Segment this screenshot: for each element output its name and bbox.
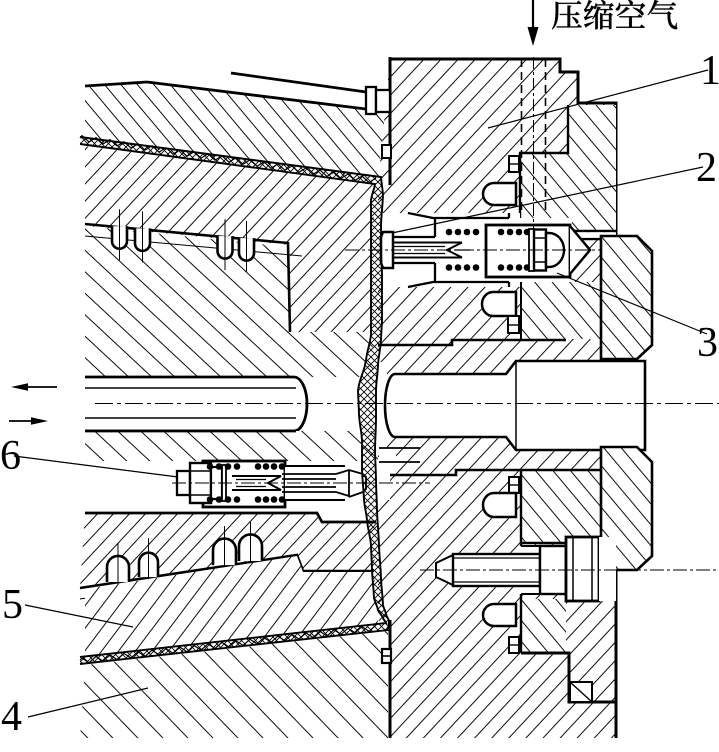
parison borders	[80, 137, 389, 664]
insert strip mid b	[521, 282, 601, 339]
vent slots upper row	[112, 226, 127, 249]
lower thin line	[80, 565, 300, 599]
left upper wedge (die lip)	[85, 146, 379, 332]
insert strip lower a	[521, 470, 601, 543]
valve 6 needle shaft	[282, 470, 366, 497]
clamp block lower	[601, 447, 652, 570]
key tab 3	[509, 477, 519, 493]
vent slot shelf line	[85, 224, 290, 332]
valve 6 stem	[232, 476, 281, 490]
central guide boss	[385, 361, 645, 450]
insert strip lower b	[521, 599, 566, 653]
svg-text:1: 1	[700, 48, 719, 94]
parting key bottom	[382, 649, 391, 663]
valve 6 housing	[203, 461, 285, 507]
right body outline	[390, 57, 616, 738]
valve 6 retainer	[222, 465, 226, 501]
valve 2 axis	[345, 249, 630, 251]
step lines lower	[378, 470, 601, 475]
leader 3	[557, 273, 707, 334]
valve 2 housing lines	[381, 213, 509, 287]
leader 4	[28, 688, 148, 717]
boss 2	[482, 292, 516, 316]
long screw head	[366, 87, 376, 114]
region 5 block	[85, 556, 378, 658]
boss 1	[483, 183, 516, 205]
svg-text:5: 5	[2, 582, 23, 628]
svg-text:2: 2	[696, 145, 717, 191]
valve 2 poppet head	[381, 232, 393, 268]
tube lower edge	[85, 430, 296, 433]
valve 2 nose cone	[570, 226, 590, 274]
leader 6	[14, 456, 178, 477]
boss cap clearance	[376, 362, 387, 449]
svg-text:3: 3	[697, 320, 718, 366]
lower steps	[521, 653, 616, 702]
flow arrow left-out	[18, 386, 57, 388]
clamp bolt tip	[436, 555, 453, 585]
valve 6 bore	[85, 461, 374, 508]
parison braid top run	[80, 136, 376, 183]
valve 6 end cap	[177, 471, 190, 495]
valve 2 pocket	[376, 213, 520, 287]
clamp bolt shaft	[453, 554, 540, 586]
band below tube	[85, 431, 378, 461]
bolt head pocket	[599, 537, 616, 601]
leader 1	[488, 70, 708, 128]
clamp block upper	[601, 236, 652, 359]
lower wedge top edge	[85, 513, 376, 522]
region 4 base block	[80, 631, 388, 738]
valve 6 channel lines	[285, 466, 345, 500]
key tab 1	[509, 156, 519, 172]
mold top plate left half	[85, 82, 390, 183]
strip mid b edge	[520, 282, 522, 339]
leader 5	[25, 605, 133, 627]
air passage dashed bores	[521, 59, 523, 213]
clamp bolt head	[566, 537, 599, 601]
valve 2 retainer	[529, 229, 534, 271]
boss 4	[483, 604, 516, 626]
clamp bolt bore	[521, 546, 540, 594]
left middle block	[85, 226, 374, 377]
key tab 2	[508, 316, 519, 333]
valve 6 axis	[172, 482, 430, 484]
compressed air arrow	[532, 0, 534, 30]
needle seat notch	[379, 448, 396, 462]
valve 6 spring coils	[207, 463, 214, 470]
key tab 4	[509, 637, 519, 653]
right body lower left edge	[389, 620, 392, 738]
base notch	[570, 682, 592, 702]
strip gap	[520, 232, 616, 238]
valve 2 washer cup	[546, 233, 564, 267]
valve 2 stem	[393, 243, 462, 258]
air axis centerline	[533, 57, 535, 230]
insert strip upper edges	[520, 105, 616, 239]
bolt axis	[420, 569, 719, 571]
clamp bolt washer	[540, 546, 566, 594]
insert strip upper	[520, 105, 616, 231]
parison sheet band	[80, 137, 389, 664]
parting key top	[382, 145, 391, 158]
svg-text:4: 4	[1, 694, 22, 740]
main axis centerline	[95, 403, 719, 405]
lower wedge bottom edge	[80, 555, 374, 588]
valve 2 spring coils	[446, 229, 453, 236]
valve 2 nut	[534, 230, 546, 271]
parison braid bottom run	[80, 625, 376, 663]
valve 6 hex nut	[190, 463, 211, 503]
long screw shaft	[147, 73, 366, 109]
mold body right half	[378, 59, 616, 738]
top plate outline	[85, 82, 147, 86]
valve 2 cartridge body	[486, 225, 570, 277]
title: compressed air	[552, 1, 582, 30]
boss 3	[483, 493, 516, 517]
svg-text:6: 6	[0, 433, 21, 479]
blow air tube (left)	[85, 377, 307, 431]
leader 2	[392, 167, 703, 233]
vent bumps lower row	[107, 556, 129, 582]
left lower wedge	[80, 513, 376, 588]
step lines mid	[378, 340, 566, 345]
valve 6 needle channel	[285, 466, 380, 500]
insert strip lower edges	[521, 470, 570, 653]
flow arrow left-in	[9, 420, 38, 422]
vent slot thin line	[85, 236, 302, 256]
valve 6 washer	[211, 467, 222, 499]
